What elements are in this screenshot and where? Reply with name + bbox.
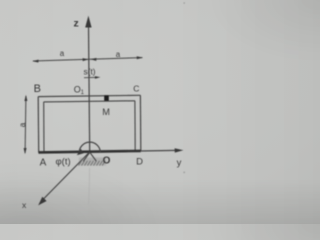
frame right outer rail (C–D) (139, 95, 141, 151)
svg-text:A: A (40, 158, 47, 169)
svg-text:1: 1 (81, 90, 85, 96)
svg-text:a: a (18, 122, 27, 127)
svg-text:φ(t): φ(t) (56, 156, 71, 167)
x-axis arrowhead (38, 197, 46, 206)
top dimension line (33, 58, 142, 61)
dimension arrowhead center-right (90, 58, 96, 61)
frame left outer rail (B–A) (37, 97, 40, 153)
support triangle left leg (83, 152, 90, 161)
speck right (183, 172, 185, 174)
svg-text:s(t): s(t) (84, 67, 96, 77)
svg-text:B: B (34, 83, 41, 95)
svg-text:a: a (116, 50, 121, 59)
left vertical dimension line (24, 96, 27, 153)
svg-text:C: C (133, 83, 139, 93)
svg-text:x: x (22, 200, 27, 210)
y-axis arrowhead (175, 148, 184, 152)
left dimension arrowhead bottom (24, 148, 27, 154)
support smudge (79, 158, 106, 166)
svg-text:D: D (136, 156, 143, 167)
svg-text:M: M (102, 107, 110, 117)
svg-text:O: O (103, 156, 111, 167)
frame bottom bar (A–D) (38, 151, 140, 153)
frame top inner rail (44, 101, 135, 102)
left dimension arrowhead top (24, 95, 27, 101)
y-axis (thin part beyond D) (141, 149, 176, 152)
faint crease line below origin (89, 168, 90, 204)
x-axis (43, 152, 90, 200)
s(t) direction arrow (84, 76, 97, 78)
frame top outer rail (B–C) (38, 95, 140, 96)
dimension arrowhead left outer (32, 60, 38, 63)
support hatching (79, 161, 106, 166)
z-axis (89, 26, 90, 152)
z-axis arrowhead (85, 16, 91, 28)
svg-text:y: y (177, 157, 182, 168)
svg-text:z: z (74, 18, 79, 30)
rotation arc phi (79, 142, 100, 153)
frame right inner rail (134, 101, 136, 151)
rotation arc arrowhead (77, 149, 84, 155)
mass M (black square on rail) (104, 95, 109, 101)
speck top-right (183, 2, 185, 4)
svg-text:a: a (60, 49, 65, 58)
support triangle right leg (90, 152, 96, 161)
dimension arrowhead center-left (83, 58, 89, 61)
frame left inner rail (43, 102, 45, 152)
dimension arrowhead right outer (137, 56, 143, 59)
